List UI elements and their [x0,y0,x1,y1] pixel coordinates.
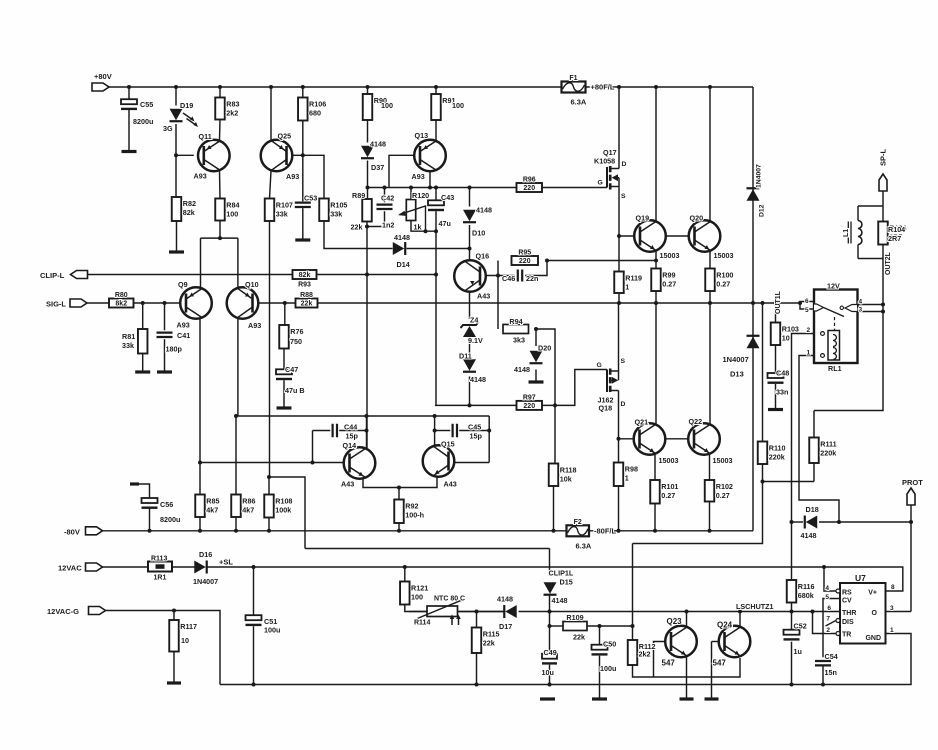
svg-text:CV: CV [842,598,852,605]
arrow Q13 emitter [424,145,429,149]
svg-text:6: 6 [805,298,809,305]
svg-text:547: 547 [713,659,727,668]
resistor R83 2k2 [215,98,239,120]
svg-text:33k: 33k [122,341,134,350]
wire C46 left lead [498,275,515,277]
svg-text:2k2: 2k2 [639,650,651,659]
svg-text:D: D [621,401,626,408]
svg-text:C46: C46 [502,274,515,283]
connector +80V [92,72,112,91]
wire CLIP-L line [88,274,293,276]
svg-text:RS: RS [842,590,852,597]
wire C44 left lead [313,430,331,432]
svg-text:8: 8 [891,584,895,591]
wire protection sense drop [632,544,634,627]
ground Q23 [680,697,694,700]
transistor Q10 A93 [227,287,259,319]
wire base node to R105 [303,155,324,198]
capacitor C55 8200u [121,99,153,126]
wire R102 to -80F/L [709,502,711,531]
svg-text:100u: 100u [600,664,616,673]
node gnd C54 [821,683,825,687]
wire R110 bottom [762,464,764,482]
node PROT D18 [909,520,913,524]
node +80V R106 [301,85,305,89]
svg-text:L1: L1 [843,229,850,237]
svg-text:K1058: K1058 [594,157,615,166]
node OUT1L R119 [617,301,621,305]
resistor R89 22k [362,199,372,222]
resistor R121 100 [400,582,428,605]
wire Q10 collector down [237,319,239,417]
transistor Q19 15003 [634,220,666,252]
ground C47 [277,406,292,409]
node D14 D10 Q16 [468,247,472,251]
svg-text:750: 750 [290,337,302,346]
node OUT2L pin3 [881,310,885,314]
wire SP-L lead [882,191,884,206]
svg-text:DIS: DIS [842,619,854,626]
node base wire R85 [198,461,202,465]
wire D14 cathode to Q16 collector [407,248,470,250]
resistor R117 10 [169,620,197,652]
svg-text:1n2: 1n2 [382,221,394,230]
svg-text:100u: 100u [264,626,280,635]
svg-text:R107: R107 [276,201,293,210]
wire C43 top lead [435,188,437,203]
inductor L1 [843,221,862,245]
svg-text:1N4007: 1N4007 [193,577,218,586]
ground Q24 [705,697,719,700]
svg-text:R80: R80 [115,292,128,299]
wire R111 top lead [813,411,815,438]
wire R115 top lead [476,612,478,628]
wire +SL rail to U7 V+ [207,567,903,591]
wire Q25 base lead [287,154,303,156]
node -80F R101 [653,529,657,533]
diode D12 1N4007 [747,164,766,217]
node -80V R85 [198,529,202,533]
node R94 D20 [534,327,538,331]
arrow Q21 emitter [650,448,655,452]
svg-text:R105: R105 [330,201,347,210]
wire relay pin1 lead [799,356,839,523]
wire relay pin6 stub [800,302,815,304]
node tail R84 [218,236,222,240]
svg-text:4k7: 4k7 [206,506,218,515]
svg-text:220k: 220k [769,453,785,462]
svg-text:1: 1 [625,474,629,483]
connector CLIP-L [40,271,88,281]
node R96 D10 [468,186,472,190]
ground C49 [540,697,555,700]
connector PROT [902,478,923,505]
wire R112 top lead [632,626,634,640]
svg-text:100k: 100k [275,506,291,515]
svg-text:A43: A43 [444,480,457,489]
node Q25 base [301,153,305,157]
svg-text:GND: GND [865,635,881,642]
wire Q18 source up [618,303,620,380]
svg-text:15p: 15p [346,432,359,441]
node +80F Q20 [708,85,712,89]
wire -80F/L rail [589,530,753,532]
svg-text:0.27: 0.27 [716,491,730,500]
svg-text:D12: D12 [759,204,766,217]
svg-text:5: 5 [805,307,809,314]
wire R110 R111 bottom bus [763,481,815,483]
wire R120 C43 bottom [411,221,436,232]
svg-text:220: 220 [519,258,531,265]
connector 12VAC [58,563,103,573]
node R96 R120 [409,186,413,190]
svg-text:10: 10 [181,636,189,645]
svg-text:1: 1 [890,627,894,634]
wire Q19 Q20 base line [619,235,641,237]
wire L1 leads [857,206,859,221]
svg-text:547: 547 [662,659,676,668]
wire R81 to ground [142,354,144,371]
ground C56 hook [130,482,139,485]
ground R117 [167,681,181,684]
svg-text:A93: A93 [412,172,425,181]
wire R120 top lead [410,188,412,200]
svg-text:D15: D15 [560,578,573,587]
node R120 wiper [424,229,428,233]
svg-text:33k: 33k [330,210,342,219]
connector -80V [64,527,103,537]
svg-text:A93: A93 [286,172,299,181]
wire R86 to -80V [235,517,237,531]
node -80V C56 [148,529,152,533]
wire C55 leads [128,87,130,100]
wire D15 node to C49 [549,612,551,656]
ground R81 [135,370,150,373]
wire D12 branch [752,87,754,303]
svg-text:6: 6 [827,605,831,612]
svg-text:D19: D19 [180,101,193,110]
svg-text:1N4007: 1N4007 [756,164,763,188]
diode D16 1N4007 [193,550,233,586]
svg-text:D20: D20 [538,344,551,353]
wire D10 leads [469,188,471,207]
wire SIG-L input [87,302,109,304]
svg-text:+SL: +SL [219,558,233,567]
resistor R91 100 [431,94,455,120]
wire D15 column [549,549,551,577]
wire R80 to Q9 base [134,302,187,304]
wire R108 to -80V [268,518,270,531]
capacitor C56 8200u [142,498,181,524]
node LSCHUTZ Q24 [738,610,742,614]
resistor R86 4k7 [231,495,255,518]
node R96 D37 [366,186,370,190]
wire D15 to LSCHUTZ1 [549,595,551,612]
ground R82 [169,250,184,253]
svg-text:4148: 4148 [470,375,486,384]
svg-text:-80F/L: -80F/L [594,526,617,535]
wire D19 top lead [175,87,177,106]
wire R76 to C47 [283,349,285,372]
svg-text:1R1: 1R1 [154,575,167,582]
wire D20 to ground [535,370,537,381]
node gnd C52 [790,683,794,687]
capacitor C51 100u [246,615,281,634]
svg-text:680k: 680k [798,591,814,600]
node R95 Q19e [654,259,658,263]
node D18 cathode [790,520,794,524]
wire R109 to R112 [587,625,633,627]
svg-text:D37: D37 [371,163,384,172]
svg-text:2k2: 2k2 [226,109,238,118]
transistor Q20 15003 [689,220,721,252]
wire R115 to ground rail [476,653,478,685]
svg-text:680: 680 [309,109,321,118]
node Q11 base [174,153,178,157]
resistor R101 0.27 [650,480,678,504]
wire R116 bottom lead [791,603,793,612]
wire +80V rail [109,86,562,88]
node C45 left [433,429,437,433]
trimmer R120 1k [398,191,429,232]
svg-text:12VAC: 12VAC [58,564,82,573]
svg-text:PROT: PROT [902,478,923,487]
svg-text:22k: 22k [351,223,363,232]
wire R106 bottom to base node [302,121,304,156]
svg-text:D18: D18 [806,505,819,514]
arrow Q9 emitter [190,293,195,297]
arrow Q10 emitter [245,293,250,297]
capacitor C53 [295,194,317,208]
capacitor C50 100u [592,640,617,674]
svg-text:Z4: Z4 [470,316,478,325]
transistor Q22 15003 [688,423,720,455]
resistor R118 10k [549,464,577,487]
svg-text:R92: R92 [405,502,418,511]
wire R121 to NTC [405,605,427,612]
node D18 anode [837,520,841,524]
connector 12VAC-G [47,607,106,617]
svg-text:+80F/L: +80F/L [591,83,615,92]
svg-text:100-h: 100-h [405,511,424,520]
wire R96 to Q17 gate [542,187,607,189]
svg-text:4148: 4148 [370,140,386,149]
svg-text:C48: C48 [776,369,789,378]
svg-text:R115: R115 [483,630,500,639]
transistor Q9 A93 [180,287,212,319]
svg-text:8200u: 8200u [160,515,180,524]
svg-text:D16: D16 [199,550,212,559]
svg-text:RL1: RL1 [828,364,842,373]
node +80F Q17 [617,85,621,89]
wire R116 node to C52 [791,612,793,630]
diode D17 4148 [497,595,517,632]
wire output rail OUT1L [318,302,801,304]
svg-text:220k: 220k [820,449,836,458]
svg-text:R108: R108 [275,497,292,506]
svg-text:CLIP1L: CLIP1L [549,569,574,578]
svg-text:47u: 47u [439,219,451,228]
wire NTC to R115 node [458,611,504,613]
wire C44 right lead [339,430,366,432]
svg-text:R82: R82 [183,199,196,208]
svg-text:100: 100 [452,101,464,110]
capacitor C44 15p [333,423,359,441]
connector SIG-L [46,299,87,309]
wire Q10 emitter riser [237,238,239,287]
wire Q19-Q20 base link [666,235,696,237]
node LSCHUTZ D15 [548,610,552,614]
transistor Q24 547 [719,626,751,658]
diode D11 4148 [459,352,486,385]
wire PROT drop [910,505,912,612]
wire D14-D10 node [324,221,393,249]
transistor Q25 A93 [261,140,293,172]
arrow Q11 emitter [207,145,212,149]
wire R108 top lead [269,477,305,549]
node OUT1L R103 [774,301,778,305]
node +80V C55 [127,85,131,89]
node +80V Q25 [269,85,273,89]
resistor R97 220 [517,394,543,410]
fuse F2 6.3A [567,519,617,551]
svg-text:LSCHUTZ1: LSCHUTZ1 [736,602,774,611]
svg-text:2R7: 2R7 [888,234,901,243]
svg-text:G: G [597,362,602,369]
svg-text:SIG-L: SIG-L [46,300,66,309]
ground C41 [157,370,172,373]
node fb R76 [283,301,287,305]
resistor R103 10 [771,323,799,346]
wire D11 to R97 line [469,377,471,406]
node C45 right [487,429,491,433]
svg-text:Q10: Q10 [245,280,259,289]
wire R92 to -80V [398,523,400,531]
relay RL1 12V [805,282,863,374]
svg-text:F2: F2 [574,519,582,526]
svg-text:33n: 33n [776,388,788,397]
wire R83 to Q11 [219,120,222,141]
wire Q22 collector [709,303,711,424]
node input C41 [163,301,167,305]
wire R113 to D16 [172,566,197,568]
node LSCHUTZ R116 [790,610,794,614]
transistor Q15 A43 [423,445,455,477]
wire R99 to OUT1L [655,291,657,303]
node CLIP-L R89 [365,273,369,277]
node OUT1L R110 [761,301,765,305]
wire relay pin2 lead [792,334,821,581]
wire R104 leads [882,206,884,222]
node R89 C42 [365,225,369,229]
resistor R108 100k [264,495,292,518]
svg-text:4148: 4148 [552,596,568,605]
wire R109 node line [550,625,564,627]
node -80F R118 [552,529,556,533]
svg-text:O: O [872,610,878,617]
wire L1 branch top [858,205,883,207]
svg-text:Q25: Q25 [278,132,292,141]
svg-text:D11: D11 [459,352,472,361]
svg-text:Q21: Q21 [635,418,649,427]
wire relay pin4 lead [857,304,883,306]
wire R119 to OUT1L [618,293,620,303]
svg-text:A93: A93 [194,172,207,181]
node -80V R108 [267,529,271,533]
node R96 C43 [434,186,438,190]
arrow Q25 emitter [279,145,284,149]
resistor R96 220 [517,177,543,193]
wire Q24 base lead [712,641,726,643]
mosfet Q17 K1058 [594,148,627,200]
node R95 C46 [545,259,549,263]
svg-text:F1: F1 [569,75,577,82]
wire collector bus y416 [236,415,489,417]
resistor R92 100-h [394,500,424,524]
svg-text:3G: 3G [163,124,173,133]
svg-text:4148: 4148 [497,595,513,604]
svg-text:R104: R104 [888,225,905,234]
wire Q16 collector up [469,249,471,261]
wire Q13 collector [429,171,431,188]
svg-text:D17: D17 [499,622,512,631]
diode D37 4148 [361,140,386,173]
LED D19 3G [163,101,198,133]
capacitor C48 33n [768,369,790,397]
wire C54 bottom [822,666,824,684]
wire Q19 collector [655,87,657,221]
svg-text:Q14: Q14 [343,441,357,450]
svg-text:0.27: 0.27 [716,280,730,289]
svg-text:Q13: Q13 [415,131,429,140]
svg-text:S: S [621,358,626,365]
wire Q17 source down [618,178,620,272]
svg-text:C43: C43 [441,193,454,202]
resistor R82 82k [172,197,196,221]
node OUT1L D13 [751,301,755,305]
svg-text:Q23: Q23 [667,617,683,626]
svg-text:220: 220 [523,403,535,410]
svg-text:Q9: Q9 [178,280,188,289]
resistor R119 1 [614,272,642,294]
node -80F R102 [708,529,712,533]
wire R96 input line [368,187,517,189]
wire R103 stub [775,303,777,323]
svg-text:R109: R109 [566,613,583,622]
svg-text:33k: 33k [276,210,288,219]
svg-text:22k: 22k [483,639,495,648]
resistor R115 22k [472,628,500,654]
svg-text:R113: R113 [151,556,167,563]
resistor R106 680 [298,98,326,121]
svg-text:3: 3 [890,605,894,612]
node OUT1L R99 [654,301,658,305]
resistor R81 33k [138,329,148,354]
wire Q19 emitter to R99 [655,251,657,269]
capacitor C45 15p [453,423,483,441]
connector SP-L [879,148,888,191]
svg-text:R83: R83 [226,100,239,109]
wire Q21-Q22 base link [666,438,695,440]
transistor Q16 A43 [454,260,486,292]
wire OUT2L drop [814,312,883,411]
node +80V R90 [366,85,370,89]
wire D18 anode to PROT line [819,521,911,523]
node +80V R91 [434,85,438,89]
svg-text:OUT1L: OUT1L [775,290,782,314]
wire D19 to base node [175,124,177,197]
capacitor C49 10u [542,648,558,677]
